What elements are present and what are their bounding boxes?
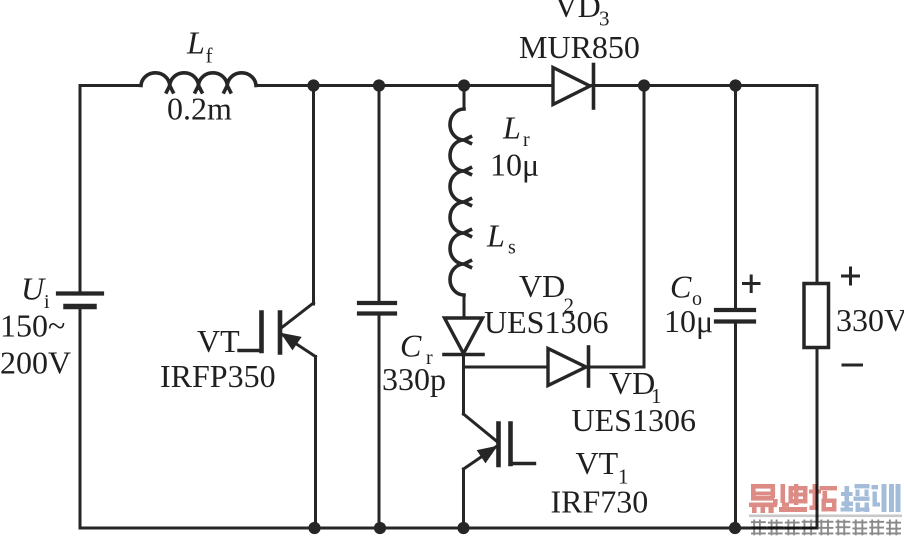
watermark subtitle [751,520,901,536]
wire Co top lead [734,86,737,309]
wire VT drain lead [312,86,315,305]
svg-text:VD: VD [555,0,601,24]
node junction top Cr [373,79,385,91]
svg-text:200V: 200V [0,345,71,381]
capacitor Cr [359,303,395,314]
wire bottom rail [80,527,817,530]
watermark underline [749,515,902,518]
svg-text:MUR850: MUR850 [519,29,640,65]
wire Lr top lead [463,86,466,110]
svg-text:IRF730: IRF730 [551,484,649,520]
polarity minus load [843,364,862,367]
svg-text:330p: 330p [382,361,446,397]
wire right vertical upper [816,86,819,284]
wire resonant node horizontal [464,366,549,369]
svg-text:VT: VT [197,323,240,359]
svg-text:UES1306: UES1306 [484,304,608,340]
wire right vertical lower [816,348,819,529]
node junction bottom Co [729,522,741,534]
diode VD2 [444,318,483,355]
svg-text:f: f [206,44,213,68]
wire VD2 cathode down [462,355,465,415]
wire Co bottom lead [734,322,737,529]
svg-text:L: L [486,218,505,254]
node junction top VD1 branch [638,79,650,91]
svg-text:330V: 330V [836,302,904,338]
wire VT1 source lead [462,469,465,528]
wire Ls to VD2 [463,295,466,318]
capacitor Co [716,310,754,322]
polarity plus Co [744,276,760,292]
svg-text:C: C [400,328,422,364]
wire VD1 branch vertical [643,86,646,368]
battery Ui [58,294,102,307]
node junction top Lr [458,79,470,91]
svg-text:C: C [670,269,692,305]
wire left vertical lower [79,307,82,529]
svg-text:3: 3 [599,7,610,31]
node junction bottom VT1 [457,522,469,534]
inductor Lr Ls [450,109,470,295]
wire left vertical upper [79,86,82,292]
watermark logo yiditop [749,484,902,535]
polarity plus load [843,268,859,284]
svg-text:L: L [186,25,205,61]
diode VD3 [553,65,594,109]
svg-text:IRFP350: IRFP350 [160,358,276,394]
wire VD1 cathode to branch [589,366,645,369]
node junction top Co [729,79,741,91]
inductor Lf [141,73,256,92]
svg-text:10μ: 10μ [490,147,539,183]
svg-text:10μ: 10μ [664,303,713,339]
node junction bottom VT [308,522,320,534]
node junction bottom Cr [374,522,386,534]
svg-text:U: U [21,271,46,307]
diode VD1 [548,347,589,386]
svg-text:s: s [508,237,516,259]
transistor VT1 [464,414,535,469]
svg-text:0.2m: 0.2m [167,91,232,127]
svg-text:UES1306: UES1306 [572,402,696,438]
svg-text:VT: VT [576,445,619,481]
wire top rail right segment [590,84,817,87]
node junction top VT [307,79,319,91]
svg-text:L: L [502,110,521,146]
wire Cr top lead [378,86,381,302]
resistor load 330V [804,284,829,348]
wire Cr bottom lead [378,314,381,529]
svg-text:VD: VD [609,365,655,401]
wire top rail middle segment [256,84,553,87]
wire VT source lead [314,357,317,529]
svg-text:150~: 150~ [0,308,65,344]
wire top rail left segment [80,84,141,87]
transistor VT [239,303,316,357]
svg-text:VD: VD [519,268,565,304]
